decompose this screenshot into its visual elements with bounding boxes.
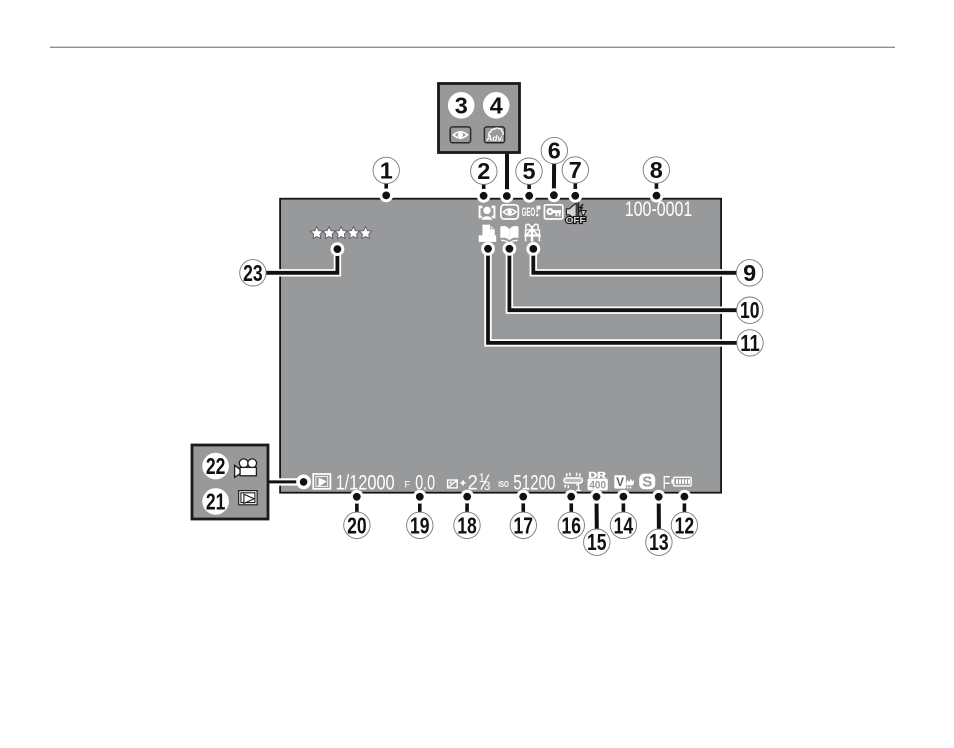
svg-text:6: 6 <box>548 138 561 164</box>
callout 6 <box>541 137 567 163</box>
svg-text:4: 4 <box>490 92 503 118</box>
svg-text:21: 21 <box>206 488 226 514</box>
svg-text:9: 9 <box>743 260 756 286</box>
icon flash suppressed <box>564 473 583 494</box>
callout 1 <box>373 157 399 183</box>
stem 20 <box>355 497 359 513</box>
stem 2 <box>482 184 486 196</box>
svg-text:12: 12 <box>675 512 695 538</box>
battery level <box>671 477 691 486</box>
callout line 9 <box>533 249 738 273</box>
anchor dots <box>296 188 691 503</box>
svg-text:14: 14 <box>614 512 634 538</box>
callout 21 <box>202 488 229 515</box>
svg-text:GEO: GEO <box>522 207 536 219</box>
svg-text:1: 1 <box>380 157 393 183</box>
stem 19 <box>418 497 422 513</box>
stem 16 <box>569 497 573 513</box>
connector from top box <box>505 152 509 196</box>
svg-text:22: 22 <box>206 453 226 479</box>
icon protect key <box>544 205 562 219</box>
callout 23 <box>240 260 266 286</box>
svg-text:5: 5 <box>522 158 535 184</box>
svg-text:Adv.: Adv. <box>485 133 504 143</box>
stem 18 <box>465 497 469 513</box>
icon photobook <box>500 226 518 244</box>
svg-text:400: 400 <box>589 480 606 492</box>
callout 17 <box>510 512 536 538</box>
callout 14 <box>610 512 636 538</box>
svg-text:18: 18 <box>457 512 477 538</box>
icon advanced mode button <box>484 127 504 143</box>
svg-text:F: F <box>663 472 671 493</box>
svg-text:OFF: OFF <box>566 215 586 225</box>
icon geotag GEO <box>522 206 541 219</box>
callout 4 <box>483 92 510 119</box>
callout 20 <box>344 512 370 538</box>
callout 10 <box>737 297 763 323</box>
callout 9 <box>736 260 762 286</box>
icon red-eye <box>501 205 518 219</box>
callout line 11 <box>488 249 738 343</box>
icon red-eye-detect button <box>450 127 470 143</box>
svg-text:F: F <box>404 479 410 490</box>
stem 7 <box>573 183 577 196</box>
stem 13 <box>657 497 661 530</box>
svg-text:3: 3 <box>484 481 490 493</box>
svg-text:11: 11 <box>740 330 760 356</box>
callout 5 <box>516 158 542 184</box>
callout 18 <box>454 512 480 538</box>
svg-text:16: 16 <box>562 512 582 538</box>
screen (monitor display) <box>280 199 721 493</box>
icon image size S <box>639 473 655 490</box>
callout line 10 <box>509 249 738 310</box>
connector from mode box <box>268 478 304 485</box>
svg-text:17: 17 <box>514 512 534 538</box>
callout 16 <box>558 512 584 538</box>
callout 15 <box>584 529 610 555</box>
icon DPOF printer <box>479 224 497 242</box>
svg-text:23: 23 <box>243 260 263 286</box>
stem 8 <box>655 183 659 196</box>
top rule <box>50 46 895 48</box>
icon sound-off speaker <box>566 202 587 225</box>
icon gift <box>524 224 540 241</box>
callout 8 <box>643 157 669 183</box>
icon still playback mode <box>239 491 257 505</box>
top info box <box>439 84 520 153</box>
svg-text:V: V <box>616 477 624 489</box>
callout line 23 <box>264 249 337 273</box>
svg-text:8: 8 <box>650 157 663 183</box>
svg-text:2: 2 <box>477 158 490 184</box>
stem 5 <box>527 184 531 196</box>
svg-text:13: 13 <box>649 529 669 555</box>
callout 3 <box>448 92 475 119</box>
svg-text:7: 7 <box>569 157 582 183</box>
stem 17 <box>521 497 525 513</box>
rating stars <box>311 227 372 239</box>
callout 13 <box>646 529 672 555</box>
exposure compensation value +2 1/3 <box>460 470 490 494</box>
stem 12 <box>683 497 687 513</box>
svg-text:20: 20 <box>347 512 367 538</box>
svg-text:3: 3 <box>455 92 468 118</box>
icon movie mode <box>235 459 257 477</box>
svg-text:15: 15 <box>587 529 607 555</box>
callout 22 <box>202 453 229 480</box>
callout 19 <box>407 512 433 538</box>
icon face-detection <box>479 206 496 221</box>
exposure compensation icon <box>448 480 458 488</box>
callout 7 <box>562 157 588 183</box>
icon dynamic range DR400 <box>588 470 608 492</box>
stem 1 <box>384 183 388 195</box>
svg-text:1/12000: 1/12000 <box>336 470 395 494</box>
svg-text:ISO: ISO <box>498 479 509 489</box>
stem 15 <box>595 497 599 530</box>
svg-text:19: 19 <box>410 512 430 538</box>
svg-text:S: S <box>642 473 652 490</box>
callout 2 <box>471 158 497 184</box>
stem 14 <box>622 497 626 513</box>
icon playback mode <box>313 474 330 489</box>
mode info box <box>192 445 268 519</box>
callout 12 <box>671 512 697 538</box>
svg-text:10: 10 <box>740 297 760 323</box>
callout 11 <box>737 330 763 356</box>
icon D-range priority <box>614 475 634 489</box>
svg-text:DR: DR <box>588 470 607 480</box>
stem 6 <box>552 164 556 196</box>
